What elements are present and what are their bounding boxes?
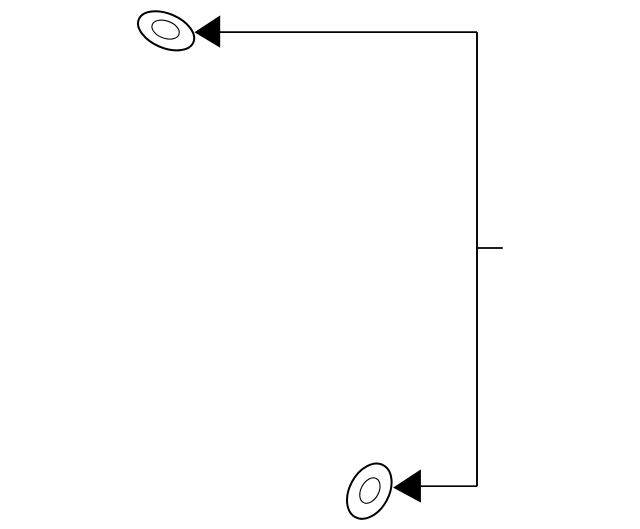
arrowhead to E2 <box>393 469 421 502</box>
ring terminal E2 (bottom) outer <box>338 456 401 527</box>
arrowhead to E1 <box>194 15 220 47</box>
ring terminal E1 (top) outer <box>132 3 200 58</box>
ring terminal E1 (top) inner <box>149 17 182 43</box>
ring terminal E2 (bottom) inner <box>356 474 385 506</box>
stub tick on vertical wire <box>477 247 503 249</box>
wire right vertical <box>476 32 478 486</box>
wire top horizontal <box>220 31 477 33</box>
wire bottom horizontal <box>421 485 477 487</box>
